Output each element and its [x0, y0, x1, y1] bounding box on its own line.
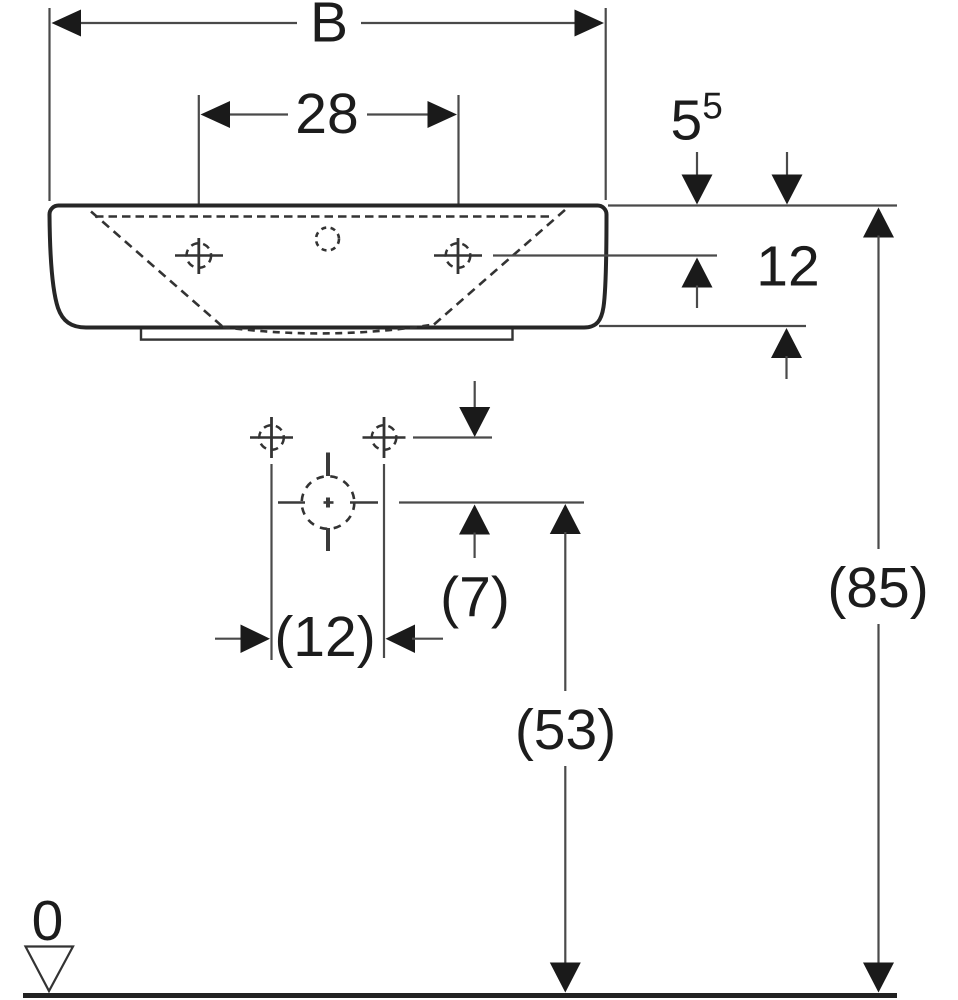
- reference line top of basin (right): [608, 204, 897, 206]
- dimension (85): vertical line upper segment with up arrow: [863, 208, 894, 238]
- dimension B: extension line right: [605, 8, 607, 200]
- dimension 12: up arrow: [771, 328, 802, 358]
- reference line bottom of basin (right): [599, 325, 806, 327]
- drain hole dashed circle: [302, 476, 355, 529]
- extension line below right bolt hole: [383, 464, 385, 658]
- dimension (53): vertical line upper segment with up arrow: [550, 504, 581, 534]
- dimension 28: arrow right: [428, 101, 458, 128]
- washbasin pedestal bar: [141, 327, 513, 340]
- extension line below left bolt hole: [270, 464, 272, 660]
- dimension B: extension line left: [48, 8, 50, 201]
- basin bowl dashed bottom arc: [223, 325, 434, 334]
- dimension 5.5: down arrow: [696, 152, 698, 178]
- dimension B: dimension line: [79, 22, 297, 24]
- bolt hole height reference line: [413, 436, 492, 438]
- svg-text:(85): (85): [827, 556, 928, 620]
- leader line from right faucet hole: [493, 254, 717, 256]
- dimension 12: down arrow: [786, 152, 788, 178]
- washbasin outline: [50, 206, 607, 328]
- bolt hole crosshair left: [250, 417, 293, 458]
- basin inner rim dashed top line: [95, 215, 552, 218]
- dimension 28: dimension line: [228, 113, 288, 115]
- svg-text:12: 12: [756, 235, 819, 299]
- dimension 28: extension line right: [457, 95, 459, 229]
- dimension (7): up arrow: [459, 505, 490, 535]
- svg-text:B: B: [310, 0, 348, 55]
- svg-text:28: 28: [295, 82, 358, 146]
- drain hole centerline cross horizontal: [278, 501, 378, 504]
- bolt hole height: down arrow: [474, 381, 476, 410]
- overflow hole dashed circle: [316, 228, 339, 251]
- svg-text:(12): (12): [274, 605, 375, 669]
- svg-text:(53): (53): [515, 698, 616, 762]
- faucet hole crosshair left: [175, 238, 223, 274]
- dimension (12): left arrow pointing right: [215, 638, 243, 640]
- bolt hole crosshair right: [363, 417, 406, 458]
- dimension (12): right arrow pointing left: [386, 625, 416, 654]
- dimension 28: extension line left: [198, 95, 200, 229]
- svg-text:(7): (7): [440, 566, 510, 630]
- ground line: [23, 993, 897, 998]
- drain height reference line: [399, 501, 584, 503]
- dimension B: arrow left: [52, 10, 82, 37]
- dimension 5.5: up arrow: [682, 258, 713, 288]
- drain hole centerline cross vertical: [326, 453, 330, 552]
- datum level 0: open triangle symbol: [26, 947, 74, 992]
- dimension 28: arrow left: [201, 101, 231, 128]
- dimension (53): vertical line lower segment with down arrow: [564, 766, 566, 965]
- dimension B: arrow right: [575, 10, 605, 37]
- svg-text:0: 0: [32, 889, 64, 953]
- basin bowl dashed right slant: [434, 210, 566, 325]
- faucet hole crosshair right: [434, 238, 482, 274]
- basin bowl dashed left slant: [91, 212, 223, 328]
- dimension (85): vertical line lower segment with down arrow: [877, 624, 879, 965]
